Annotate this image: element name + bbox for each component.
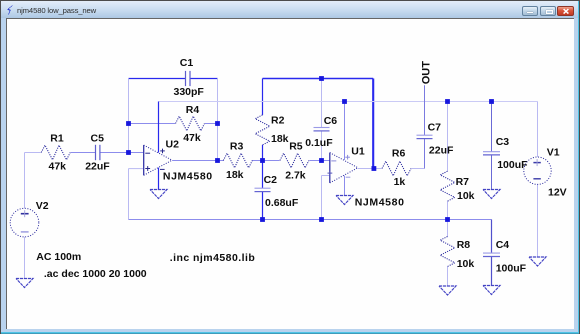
resistor R5: [280, 153, 309, 168]
op-amp U1: [329, 153, 331, 183]
svg-text:R8: R8: [457, 239, 471, 251]
svg-text:47k: 47k: [49, 161, 67, 173]
junction R7 top rail: [445, 99, 450, 104]
resistor R6: [382, 161, 411, 176]
resistor R8: [440, 237, 455, 267]
svg-text:R4: R4: [186, 104, 200, 116]
wire C7 top lead to OUT: [424, 85, 426, 135]
svg-text:V2: V2: [36, 200, 49, 212]
wire C1 top net horizontal: [129, 78, 186, 80]
resistor R1: [41, 145, 70, 160]
voltage source V1 minus mark: [533, 178, 540, 180]
wire U1 output to R6: [358, 168, 382, 170]
capacitor C6: [314, 127, 330, 129]
svg-text:R6: R6: [392, 147, 406, 159]
resistor R3: [223, 153, 252, 168]
svg-text:22uF: 22uF: [429, 144, 454, 156]
svg-text:U2: U2: [166, 139, 180, 151]
resistor R2: [255, 115, 270, 145]
wire R1 to C5: [71, 152, 96, 154]
junction R4 left: [126, 121, 131, 126]
svg-text:NJM4580: NJM4580: [163, 171, 213, 183]
wire V+ rail: [159, 101, 538, 103]
op-amp U2 V+ mark: [160, 150, 165, 152]
svg-text:0.1uF: 0.1uF: [305, 137, 333, 149]
junction U1 inverting input: [319, 158, 324, 163]
svg-text:U1: U1: [351, 145, 365, 157]
svg-text:0.68uF: 0.68uF: [265, 197, 299, 209]
wire U2 output row: [172, 160, 224, 162]
wire C3 top lead: [491, 102, 493, 152]
wire U2 bias vertical: [128, 169, 130, 220]
wire V2 bottom lead: [24, 237, 26, 279]
wire C6 top lead: [321, 79, 323, 128]
op-amp U2: [143, 145, 145, 175]
svg-text:.ac dec 1000 20 1000: .ac dec 1000 20 1000: [44, 268, 147, 280]
voltage source V1 plus mark: [533, 162, 540, 164]
svg-text:100uF: 100uF: [496, 263, 527, 275]
voltage source V1: [524, 157, 551, 184]
svg-text:R5: R5: [289, 141, 303, 153]
wire U2 V- pin: [158, 168, 160, 190]
junction R4 right: [215, 121, 220, 126]
wire V1 top lead: [537, 102, 539, 158]
svg-text:.inc njm4580.lib: .inc njm4580.lib: [170, 252, 255, 264]
wire U1 noninverting stub: [322, 175, 330, 177]
svg-text:18k: 18k: [226, 169, 244, 181]
capacitor C7: [417, 134, 433, 136]
wire feedback top net: [263, 78, 374, 80]
junction C2 bias rail: [260, 217, 265, 222]
svg-text:C3: C3: [496, 136, 510, 148]
wire R8 top lead: [447, 220, 449, 237]
wire C4 top lead: [491, 220, 493, 254]
wire V1 bottom lead: [537, 184, 539, 257]
op-amp U1 V- mark: [346, 176, 351, 178]
ground below C4: [483, 286, 500, 295]
svg-text:C4: C4: [496, 239, 510, 251]
wire C4 bottom lead: [491, 257, 493, 286]
wire C6 bottom lead: [321, 131, 323, 161]
op-amp U2 inverting input mark: [145, 152, 150, 154]
svg-text:R7: R7: [456, 176, 470, 188]
svg-text:C1: C1: [180, 57, 194, 69]
wire R7 top lead: [447, 102, 449, 172]
op-amp U1 V+ mark: [345, 156, 350, 158]
window icon: [6, 5, 15, 15]
svg-text:1k: 1k: [394, 176, 406, 188]
junction node A: [260, 158, 265, 163]
wire C2 bottom lead: [262, 192, 264, 220]
junction R7 R8 bias rail: [445, 217, 450, 222]
op-amp U2 V- mark: [160, 168, 165, 170]
op-amp U1 noninverting input mark: [328, 172, 333, 174]
wire R4 right lead: [205, 123, 218, 125]
svg-text:R2: R2: [271, 115, 285, 127]
svg-text:C6: C6: [324, 115, 338, 127]
capacitor C2: [255, 187, 271, 189]
ground below U1: [336, 196, 353, 205]
svg-text:10k: 10k: [457, 258, 475, 270]
voltage source V2: [10, 208, 39, 237]
wire U2 V+ pin: [158, 102, 160, 153]
resistor R7: [440, 171, 455, 201]
svg-text:12V: 12V: [548, 187, 567, 199]
capacitor C3: [483, 151, 500, 153]
wire left feedback vertical: [128, 79, 130, 153]
voltage source V2 plus mark: [21, 213, 29, 215]
wire R3 to node A: [252, 160, 262, 162]
close button: [557, 6, 574, 16]
svg-text:10k: 10k: [457, 190, 475, 202]
wire R5 to U1 inverting input: [309, 160, 329, 162]
wire C3 bottom lead: [491, 155, 493, 190]
wire feedback vertical to U1 output: [372, 79, 374, 169]
wire input row: [25, 152, 41, 154]
wire R2 top lead: [262, 79, 264, 115]
resistor R4: [176, 116, 205, 131]
wire U1 bias vertical: [321, 176, 323, 220]
wire U1 V+ pin: [344, 102, 346, 160]
wire bias rail: [129, 219, 492, 221]
svg-text:V1: V1: [547, 147, 560, 159]
op-amp U2 noninverting input mark: [145, 168, 150, 170]
svg-text:NJM4580: NJM4580: [355, 196, 405, 208]
ground below V1: [529, 257, 546, 266]
wire C5 to U2 inverting input: [100, 152, 144, 154]
voltage source V2 minus mark: [21, 231, 29, 233]
wire R2 bottom lead: [262, 145, 264, 161]
svg-text:2.7k: 2.7k: [285, 170, 306, 182]
wire U1 V- pin: [344, 176, 346, 196]
junction C3 top rail: [489, 99, 494, 104]
wire C2 top lead: [262, 161, 264, 189]
svg-text:C2: C2: [264, 174, 278, 186]
wire R6 to C7 corner: [412, 168, 425, 170]
ground below C3: [483, 190, 500, 199]
svg-text:330pF: 330pF: [174, 86, 205, 98]
junction U1 output: [372, 166, 377, 171]
wire U2 noninverting stub: [129, 168, 144, 170]
ground below R8: [439, 286, 456, 295]
ground below V2: [16, 279, 33, 288]
svg-text:R3: R3: [230, 141, 244, 153]
svg-text:R1: R1: [50, 132, 64, 144]
svg-text:47k: 47k: [183, 132, 201, 144]
svg-text:18k: 18k: [271, 133, 289, 145]
junction U1 bias rail: [319, 217, 324, 222]
capacitor C5: [95, 145, 97, 160]
junction inverting input U2: [126, 150, 131, 155]
restore button: [540, 6, 556, 16]
svg-text:C7: C7: [428, 122, 442, 134]
wire R8 bottom lead: [447, 267, 449, 287]
junction U1 V+ rail: [342, 99, 347, 104]
junction U2 output: [215, 158, 220, 163]
junction C6 top: [319, 76, 324, 81]
svg-text:AC 100m: AC 100m: [36, 251, 81, 263]
wire V2 top lead: [24, 153, 26, 209]
svg-text:22uF: 22uF: [85, 161, 110, 173]
wire right feedback vertical: [217, 79, 219, 161]
capacitor C4: [483, 252, 500, 254]
ground below U2: [150, 190, 167, 199]
op-amp U1 inverting input mark: [331, 160, 336, 162]
svg-text:C5: C5: [91, 132, 105, 144]
capacitor C1: [185, 71, 187, 86]
wire R7 bottom lead: [447, 201, 449, 219]
wire node A to R5: [263, 160, 280, 162]
svg-text:OUT: OUT: [420, 61, 432, 85]
minimize button: [522, 6, 538, 16]
wire R4 left lead: [129, 123, 176, 125]
